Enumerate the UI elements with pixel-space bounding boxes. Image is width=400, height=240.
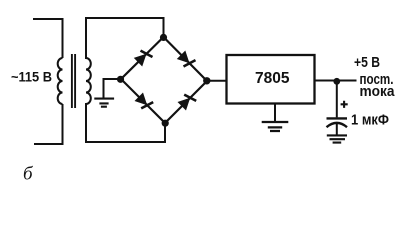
svg-text:~115 В: ~115 В: [11, 68, 52, 84]
node top of bridge: [160, 34, 167, 41]
voltage regulator U1 7805 box: [227, 55, 315, 104]
capacitor C1 top plate: [327, 117, 348, 119]
transformer T1 primary winding: [58, 58, 63, 104]
transformer T1 secondary winding: [86, 58, 91, 104]
wire capacitor to ground: [336, 124, 338, 135]
wire primary bottom vertical: [62, 104, 64, 145]
diode D1 triangle: [134, 54, 147, 67]
svg-text:mока: mока: [360, 83, 396, 100]
svg-text:1 мкФ: 1 мкФ: [351, 112, 389, 129]
svg-text:+5 В: +5 В: [354, 54, 380, 71]
wire capacitor branch: [336, 81, 338, 117]
wire bridge edge top-right: [164, 37, 208, 81]
transformer T1 core: [72, 54, 75, 108]
ground symbol at capacitor: [327, 135, 347, 142]
wire bridge left node to ground: [104, 79, 122, 98]
capacitor C1 curved bottom plate: [327, 123, 348, 127]
diode D3 triangle: [135, 93, 148, 106]
wire bridge edge left-top: [121, 37, 164, 79]
wire secondary bottom to bridge bottom node: [86, 103, 165, 142]
ground symbol at bridge: [94, 99, 114, 107]
wire bridge right node to regulator: [207, 80, 227, 82]
diode D4 cathode bar: [184, 95, 196, 101]
node output junction: [333, 78, 340, 85]
diode D2 triangle: [177, 51, 190, 64]
diode D4 triangle: [178, 98, 191, 111]
wire bridge edge bottom-right: [165, 81, 207, 123]
node left of bridge: [117, 76, 124, 83]
wire regulator output: [315, 80, 357, 82]
svg-text:б: б: [23, 164, 34, 185]
ground symbol at regulator: [262, 122, 289, 131]
svg-text:7805: 7805: [255, 70, 290, 87]
wire AC input top lead: [33, 18, 63, 20]
diode D3 cathode bar: [141, 102, 153, 108]
diode D2 cathode bar: [184, 60, 196, 66]
wire AC input bottom lead: [34, 143, 64, 145]
wire secondary top to bridge top node: [86, 18, 164, 59]
capacitor C1 polarity plus sign: [341, 101, 348, 108]
node bottom of bridge: [162, 120, 169, 127]
wire regulator ground pin: [274, 104, 276, 122]
wire bridge edge left-bottom: [121, 79, 165, 123]
node right of bridge: [203, 77, 210, 84]
wire primary top vertical: [62, 18, 64, 58]
diode D1 cathode bar: [141, 51, 153, 57]
